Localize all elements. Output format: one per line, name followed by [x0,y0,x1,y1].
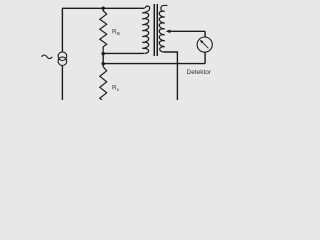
transformer T1 primary winding [142,6,149,53]
node: junction dot top (R_B top) [101,7,105,11]
svg-text:Rx: Rx [112,85,120,94]
wire: left vertical source branch upper [61,8,63,52]
transformer T1 secondary winding [159,5,167,52]
wire: short vertical between middle junctions [102,54,104,66]
wire: secondary bottom lead to right then down (cut at bottom edge) [164,52,178,100]
resistor R_x zigzag (cut at bottom edge) [100,64,107,100]
detector needle arrowhead [200,40,204,44]
svg-text:RB: RB [112,29,120,38]
wire: top horizontal from source to transformer primary [62,7,145,9]
detector meter circle [197,37,212,52]
AC source G1 (two overlapping circles) [58,52,67,61]
resistor R_B zigzag [100,8,107,53]
wire: detector bottom stub [204,52,206,63]
AC tilde symbol [42,55,53,59]
svg-text:Detektor: Detektor [187,69,212,76]
detector needle [202,42,208,48]
wire: tap arrow horizontal to detector top [170,31,206,37]
wire: left vertical source branch lower (cut at bottom edge) [61,66,63,101]
tap arrowhead pointing at secondary winding [166,30,171,34]
wire: middle horizontal to transformer primary bottom [103,52,144,54]
node: junction dot lower (R_x top / detector wire) [101,62,105,66]
node: junction dot middle (R_B bottom / primary bottom) [101,52,105,56]
wire: long horizontal from lower junction to detector bottom [103,63,205,65]
transformer core bars [153,4,155,56]
